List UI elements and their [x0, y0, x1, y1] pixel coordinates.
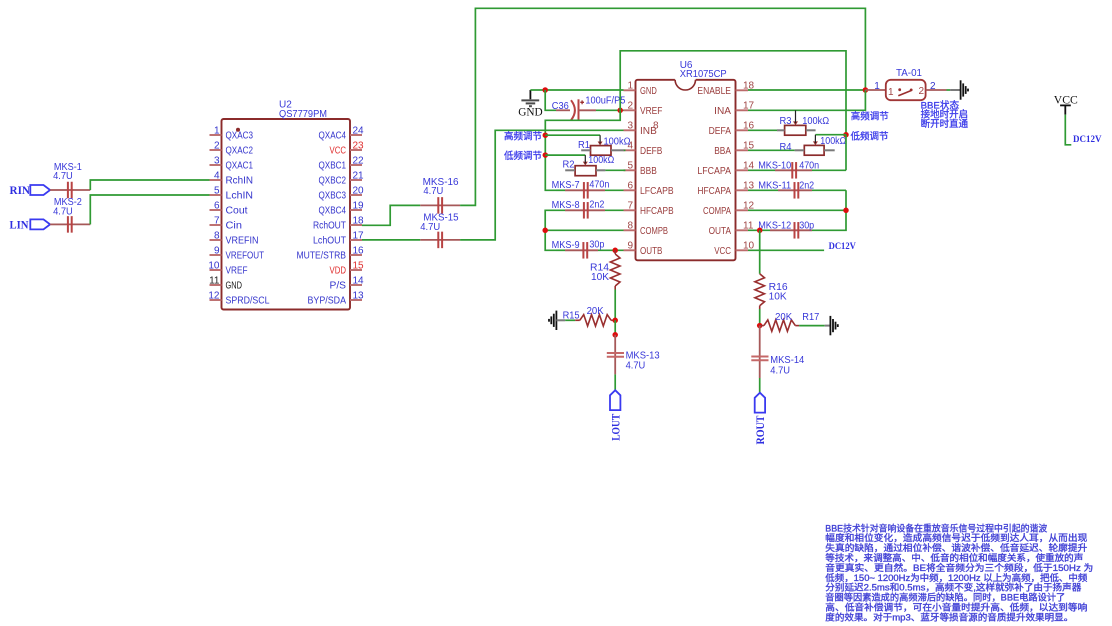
connector LIN	[30, 219, 50, 229]
U6 pin 11 OUTA	[736, 229, 749, 231]
svg-text:9: 9	[214, 246, 220, 257]
svg-text:低频，150~ 1200Hz为中频，1200Hz 以上为高频: 低频，150~ 1200Hz为中频，1200Hz 以上为高频，把低、中频	[825, 572, 1087, 583]
wire to R1 wiper	[545, 134, 600, 136]
svg-text:R1: R1	[578, 140, 590, 151]
svg-text:QXAC2: QXAC2	[226, 146, 254, 157]
svg-text:BBB: BBB	[640, 166, 657, 177]
svg-text:16: 16	[353, 246, 365, 257]
U6 pin 17 INA	[736, 109, 749, 111]
connector RIN	[30, 185, 50, 195]
svg-text:QXBC4: QXBC4	[319, 206, 347, 217]
potentiometer R3 100k	[793, 121, 798, 125]
wire COMPA row	[748, 209, 846, 211]
svg-text:高频调节: 高频调节	[851, 111, 889, 123]
svg-text:2: 2	[627, 100, 633, 111]
U2 pin 15 VDD	[350, 269, 362, 271]
junction OUTA node	[757, 228, 763, 234]
wire LIN to MKS-2	[50, 223, 66, 225]
svg-text:MKS-7: MKS-7	[552, 180, 580, 191]
wire MKS-16 top loop to ENABLE junction	[460, 8, 865, 205]
svg-text:100kΩ: 100kΩ	[604, 136, 631, 147]
svg-text:100kΩ: 100kΩ	[588, 155, 614, 166]
svg-text:13: 13	[353, 291, 365, 302]
svg-text:100kΩ: 100kΩ	[802, 116, 829, 127]
svg-text:DC12V: DC12V	[1073, 135, 1102, 145]
svg-text:LFCAPA: LFCAPA	[697, 166, 731, 177]
wire C36 to U6 pin2 VREF	[596, 109, 624, 111]
svg-text:VDD: VDD	[330, 266, 347, 277]
svg-text:12: 12	[208, 291, 220, 302]
wire MKS-1 to U2 pin4 RchIN	[90, 180, 209, 190]
svg-text:1: 1	[214, 126, 220, 137]
potentiometer R2 100k	[583, 162, 588, 166]
svg-text:8: 8	[653, 121, 659, 132]
svg-text:VCC: VCC	[714, 246, 731, 257]
svg-text:30p: 30p	[799, 220, 814, 231]
svg-text:OUTB: OUTB	[640, 246, 663, 257]
wire VCC row DC12V	[748, 249, 824, 251]
svg-text:7: 7	[214, 216, 220, 227]
U2 pin 13 BYP/SDA	[350, 299, 362, 301]
svg-text:4.7U: 4.7U	[423, 186, 443, 197]
svg-text:高、低音补偿调节，可在小音量时提升高、低频，以达到等响: 高、低音补偿调节，可在小音量时提升高、低频，以达到等响	[825, 602, 1087, 613]
svg-text:QXBC1: QXBC1	[319, 161, 347, 172]
capacitor MKS-15 4.7U	[420, 239, 460, 241]
svg-text:分别延迟2.5ms和0.5ms，高频不变,这样就弥补了由于扬: 分别延迟2.5ms和0.5ms，高频不变,这样就弥补了由于扬声器	[825, 582, 1082, 593]
svg-text:R17: R17	[802, 312, 819, 323]
resistor R16 10K	[755, 274, 765, 306]
svg-text:Cout: Cout	[226, 206, 248, 217]
U2 pin 21 QXBC2	[350, 179, 362, 181]
wire MKS-2 to U2 pin5 LchIN	[90, 195, 209, 224]
svg-text:8: 8	[214, 231, 220, 242]
svg-text:7: 7	[627, 200, 633, 211]
junction COMPA	[843, 208, 849, 214]
svg-text:R15: R15	[563, 310, 580, 321]
svg-text:1: 1	[627, 80, 633, 91]
U6 pin 14 LFCAPA	[736, 169, 749, 171]
svg-text:LFCAPB: LFCAPB	[640, 186, 674, 197]
op-amp U2 QS7779PM body	[222, 119, 351, 310]
svg-text:失真的缺陷，通过相位补偿、谐波补偿、低音延迟、轮廓提升: 失真的缺陷，通过相位补偿、谐波补偿、低音延迟、轮廓提升	[825, 542, 1087, 553]
wire OUTA to R16	[759, 230, 761, 273]
capacitor MKS-2 4.7U	[66, 223, 90, 225]
U2 pin 4 RchIN	[210, 179, 222, 181]
wire VREF lower loop to pots	[545, 110, 620, 190]
svg-text:14: 14	[353, 276, 365, 287]
capacitor MKS-8 2n2	[565, 209, 605, 211]
wire R16 to R17 node	[759, 309, 761, 326]
U6 pin 16 DEFA	[736, 129, 749, 131]
U6 pin 2 VREF	[624, 109, 636, 111]
U2 pin 6 Cout	[210, 209, 222, 211]
wire GND down to C36	[545, 90, 556, 110]
wire GND to U6 pin1	[530, 89, 545, 91]
resistor R17 20K	[760, 325, 764, 327]
svg-text:23: 23	[353, 141, 365, 152]
U2 pin 5 LchIN	[210, 194, 222, 196]
svg-text:等技术，来调整高、中、低音的相位和幅度关系，使重放的声: 等技术，来调整高、中、低音的相位和幅度关系，使重放的声	[825, 552, 1083, 563]
U6 pin 13 HFCAPA	[736, 189, 749, 191]
svg-text:10K: 10K	[591, 272, 609, 283]
U6 pin 10 VCC	[736, 249, 749, 251]
svg-text:2n2: 2n2	[799, 180, 814, 191]
resistor R15 20K	[575, 319, 580, 321]
svg-text:XR1075CP: XR1075CP	[680, 69, 727, 80]
svg-text:5: 5	[627, 160, 633, 171]
U6 pin 7 HFCAPB	[624, 209, 636, 211]
capacitor MKS-1 4.7U	[66, 189, 74, 191]
node 低频调节 left	[543, 152, 549, 158]
capacitor MKS-13 4.7U	[614, 335, 616, 375]
U2 pin 11 GND	[210, 284, 222, 286]
U2 pin 24 QXAC4	[350, 134, 362, 136]
svg-text:MKS-8: MKS-8	[552, 200, 580, 211]
junction OUTB node	[612, 248, 618, 254]
svg-text:470n: 470n	[799, 160, 819, 171]
earth ground at TA-01	[960, 80, 962, 99]
svg-text:8: 8	[627, 220, 633, 231]
svg-text:BYP/SDA: BYP/SDA	[308, 296, 347, 307]
wire U2 LchOUT to MKS-15	[362, 239, 420, 241]
svg-text:VREF: VREF	[640, 106, 662, 117]
junction ENABLE node	[863, 87, 869, 93]
svg-text:DC12V: DC12V	[829, 242, 856, 252]
svg-text:OUTA: OUTA	[709, 226, 732, 237]
svg-text:音更真实、更自然。BE将全音频分为三个频段，低于150Hz: 音更真实、更自然。BE将全音频分为三个频段，低于150Hz 为	[825, 562, 1093, 573]
svg-text:BBE技术针对音响设备在重放音乐信号过程中引起的谐波: BBE技术针对音响设备在重放音乐信号过程中引起的谐波	[825, 522, 1047, 533]
svg-text:P/S: P/S	[330, 281, 347, 292]
capacitor C36 100uF/P5	[556, 109, 570, 111]
capacitor MKS-9 30p	[556, 249, 565, 251]
junction R15 node	[612, 318, 618, 324]
U2 pin 12 SPRD/SCL	[210, 299, 222, 301]
svg-text:100kΩ: 100kΩ	[820, 136, 846, 147]
svg-text:LOUT: LOUT	[610, 414, 622, 441]
svg-text:4: 4	[214, 171, 220, 182]
svg-text:RIN: RIN	[10, 185, 31, 197]
svg-text:4.7U: 4.7U	[53, 171, 73, 182]
svg-text:19: 19	[353, 201, 365, 212]
svg-text:20K: 20K	[587, 306, 604, 317]
svg-text:4.7U: 4.7U	[53, 207, 73, 218]
junction GND node	[542, 87, 548, 93]
wire MKS-10 up to VREF loop	[845, 135, 847, 171]
svg-text:MKS-12: MKS-12	[758, 220, 791, 231]
svg-text:LchIN: LchIN	[226, 191, 254, 202]
svg-text:COMPA: COMPA	[703, 206, 731, 217]
junction COMPB	[542, 228, 548, 234]
wire INA row loops to ENABLE node	[748, 90, 865, 110]
U2 pin 8 VREFIN	[210, 239, 222, 241]
svg-text:21: 21	[353, 171, 365, 182]
svg-text:4.7U: 4.7U	[420, 222, 440, 233]
earth ground at R15	[555, 311, 557, 330]
svg-text:度的效果。对于mp3、蓝牙等损音源的音质提升效果明显。: 度的效果。对于mp3、蓝牙等损音源的音质提升效果明显。	[825, 611, 1073, 622]
U6 pin 9 OUTB	[624, 249, 636, 251]
capacitor MKS-11 2n2	[748, 189, 778, 191]
svg-text:VREFIN: VREFIN	[226, 236, 259, 247]
wire VREF inner loop over U6 top	[620, 51, 846, 135]
svg-text:HFCAPA: HFCAPA	[697, 186, 731, 197]
svg-text:低频调节: 低频调节	[504, 150, 542, 162]
svg-text:BBA: BBA	[714, 146, 731, 157]
svg-text:5: 5	[214, 186, 220, 197]
svg-text:DEFA: DEFA	[709, 126, 732, 137]
junction MKS-13 node	[612, 332, 618, 338]
svg-text:4.7U: 4.7U	[626, 361, 646, 372]
U2 pin 23 VCC	[350, 149, 362, 151]
svg-text:R3: R3	[780, 116, 792, 127]
capacitor MKS-14 4.7U	[759, 326, 761, 378]
U2 pin 9 VREFOUT	[210, 254, 222, 256]
port ROUT	[755, 393, 765, 413]
svg-text:MKS-9: MKS-9	[552, 240, 580, 251]
resistor R14 10K	[614, 250, 616, 254]
capacitor MKS-10 470n	[748, 169, 775, 171]
svg-text:ROUT: ROUT	[755, 415, 767, 444]
svg-text:4.7U: 4.7U	[770, 365, 790, 376]
svg-text:VREF: VREF	[226, 266, 248, 277]
svg-text:高频调节: 高频调节	[504, 130, 542, 142]
node 低频调节 right	[843, 132, 849, 138]
svg-text:QXBC2: QXBC2	[319, 176, 347, 187]
svg-text:ENABLE: ENABLE	[697, 86, 731, 97]
wire MKS-13 to LOUT	[614, 374, 616, 390]
svg-text:VREFOUT: VREFOUT	[226, 251, 265, 262]
node 高频调节 left	[543, 132, 549, 138]
wire RIN to MKS-1	[50, 189, 66, 191]
U6 pin 12 COMPA	[736, 209, 749, 211]
svg-text:MUTE/STRB: MUTE/STRB	[297, 251, 347, 262]
svg-text:1: 1	[888, 87, 894, 98]
svg-text:2n2: 2n2	[589, 200, 604, 211]
wire R3 wiper	[795, 110, 797, 120]
earth ground at R17	[829, 316, 831, 335]
svg-text:15: 15	[353, 261, 365, 272]
svg-text:LchOUT: LchOUT	[313, 236, 346, 247]
U2 pin 3 QXAC1	[210, 164, 222, 166]
U6 pin 3 INB	[624, 129, 636, 131]
wire R4 wiper	[815, 134, 846, 136]
U6 pin 15 BBA	[736, 149, 749, 151]
svg-text:1: 1	[874, 81, 880, 92]
svg-text:QXBC3: QXBC3	[319, 191, 347, 202]
U2 pin 17 LchOUT	[350, 239, 362, 241]
wire to R2 wiper	[545, 154, 585, 156]
svg-text:VCC: VCC	[330, 146, 347, 157]
svg-text:QS7779PM: QS7779PM	[279, 109, 327, 120]
svg-text:6: 6	[627, 180, 633, 191]
svg-text:LIN: LIN	[10, 219, 30, 231]
svg-text:R2: R2	[563, 160, 575, 171]
svg-text:10K: 10K	[769, 292, 787, 303]
U6 pin 4 DEFB	[624, 149, 636, 151]
svg-text:3: 3	[214, 156, 220, 167]
potentiometer R4 100k	[813, 141, 818, 145]
op-amp U6 XR1075CP body	[636, 80, 736, 260]
svg-text:C36: C36	[552, 101, 569, 112]
svg-text:R4: R4	[780, 142, 792, 153]
U2 pin 16 MUTE/STRB	[350, 254, 362, 256]
U6 pin 5 BBB	[624, 169, 636, 171]
U2 pin 14 P/S	[350, 284, 362, 286]
wire R14 to R15 node	[614, 290, 616, 321]
wire MKS-15 to U6 INB	[460, 130, 623, 240]
svg-text:10: 10	[208, 261, 220, 272]
wire MKS-11/COMPA/MKS-12 branch	[812, 190, 846, 230]
svg-text:3: 3	[627, 120, 633, 131]
svg-text:20K: 20K	[775, 312, 792, 323]
svg-text:MKS-11: MKS-11	[758, 180, 791, 191]
svg-text:GND: GND	[640, 86, 657, 97]
wire MKS-8 branch	[545, 210, 565, 250]
svg-text:音圈等因素造成的高频滞后的缺陷。同时，BBE电路设计了: 音圈等因素造成的高频滞后的缺陷。同时，BBE电路设计了	[825, 592, 1065, 603]
svg-text:INA: INA	[714, 106, 731, 117]
svg-text:9: 9	[627, 240, 633, 251]
svg-text:QXAC3: QXAC3	[226, 131, 254, 142]
U6 pin 8 COMPB	[624, 229, 636, 231]
svg-text:低频调节: 低频调节	[851, 130, 889, 142]
svg-text:HFCAPB: HFCAPB	[640, 206, 674, 217]
junction R17 node	[757, 323, 763, 329]
U6 pin 18 ENABLE	[736, 89, 749, 91]
svg-text:断开时直通: 断开时直通	[921, 118, 969, 130]
U6 pin 1 GND	[624, 89, 636, 91]
U2 pin 18 RchOUT	[350, 224, 362, 226]
svg-text:RchIN: RchIN	[226, 176, 254, 187]
wire MKS-14 to ROUT	[759, 378, 761, 393]
svg-text:TA-01: TA-01	[896, 68, 922, 79]
svg-text:GND: GND	[226, 281, 243, 292]
U2 pin 20 QXBC3	[350, 194, 362, 196]
svg-text:11: 11	[209, 276, 220, 287]
capacitor MKS-7 470n	[556, 189, 565, 191]
svg-text:24: 24	[353, 126, 365, 137]
U2 pin 10 VREF	[210, 269, 222, 271]
svg-text:QXAC4: QXAC4	[319, 131, 347, 142]
svg-text:22: 22	[353, 156, 365, 167]
svg-text:6: 6	[214, 201, 220, 212]
potentiometer R1 100k	[598, 142, 603, 146]
svg-text:2: 2	[214, 141, 220, 152]
svg-text:20: 20	[353, 186, 365, 197]
U2 pin 1 QXAC3	[210, 134, 222, 136]
wire ENABLE row	[748, 89, 865, 91]
svg-text:2: 2	[919, 86, 925, 97]
svg-text:GND: GND	[518, 107, 543, 119]
capacitor MKS-12 30p	[748, 229, 770, 231]
svg-text:SPRD/SCL: SPRD/SCL	[226, 296, 270, 307]
capacitor MKS-16 4.7U	[420, 204, 460, 206]
U2 pin 7 Cin	[210, 224, 222, 226]
svg-text:30p: 30p	[589, 239, 604, 250]
U2 pin 22 QXBC1	[350, 164, 362, 166]
U2 pin 19 QXBC4	[350, 209, 362, 211]
junction VREF node	[617, 108, 623, 114]
ground symbol GND	[529, 90, 531, 99]
svg-text:RchOUT: RchOUT	[313, 221, 346, 232]
wire to MKS-13	[614, 320, 616, 335]
svg-text:470n: 470n	[589, 180, 609, 191]
svg-text:DEFB: DEFB	[640, 146, 663, 157]
port LOUT	[610, 390, 620, 410]
U2 pin 2 QXAC2	[210, 149, 222, 151]
svg-text:2: 2	[930, 81, 936, 92]
U6 pin 6 LFCAPB	[624, 189, 636, 191]
svg-text:QXAC1: QXAC1	[226, 161, 254, 172]
wire U2 RchOUT to MKS-16	[362, 205, 420, 225]
svg-text:COMPB: COMPB	[640, 226, 668, 237]
svg-text:MKS-10: MKS-10	[758, 160, 791, 171]
svg-text:Cin: Cin	[226, 221, 243, 232]
svg-text:幅度和相位变化，造成高频信号迟于低频到达人耳，从而出现: 幅度和相位变化，造成高频信号迟于低频到达人耳，从而出现	[825, 532, 1087, 543]
wire COMPB row	[545, 229, 623, 231]
